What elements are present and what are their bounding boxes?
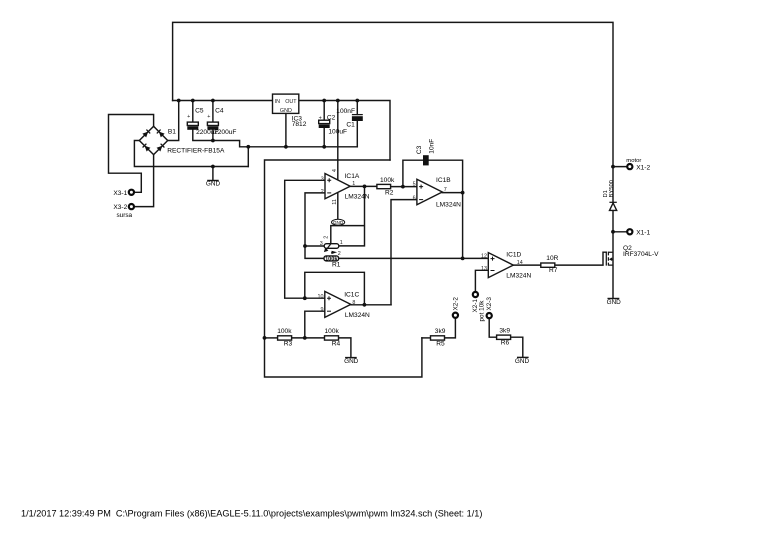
svg-text:IC1A: IC1A (345, 173, 360, 180)
junction at 402.9,186.6 (401, 185, 405, 189)
ground under R4 (344, 358, 359, 365)
wire C2 top (323, 101, 325, 121)
svg-text:7: 7 (444, 187, 447, 193)
svg-text:1: 1 (340, 240, 343, 246)
resistor R1 (324, 256, 341, 269)
svg-text:2: 2 (321, 189, 324, 195)
wire bridge bottom corner to X3-2 (134, 155, 153, 207)
svg-text:+: + (207, 114, 210, 120)
resistor R7 10R (541, 255, 559, 274)
svg-text:GND: GND (515, 358, 530, 365)
svg-text:+: + (187, 114, 190, 120)
svg-text:IN: IN (275, 99, 280, 105)
svg-text:BY500: BY500 (609, 180, 615, 197)
ground under bridge (206, 181, 221, 188)
svg-text:10nF: 10nF (428, 139, 435, 154)
wire X2-3 to R6 (489, 318, 496, 337)
junction at 613,166.6 (611, 165, 615, 169)
svg-text:1/1/2017 12:39:49 PM C:\Progr: 1/1/2017 12:39:49 PM C:\Program Files (x… (21, 509, 482, 519)
wire R6 to GND (511, 337, 523, 357)
svg-text:3k9: 3k9 (435, 328, 446, 335)
svg-text:1: 1 (352, 181, 355, 187)
svg-text:LM324N: LM324N (506, 273, 531, 280)
ground under Q2 (607, 299, 622, 307)
svg-text:R4: R4 (332, 341, 341, 348)
junction at 212.9,166.5 (211, 165, 215, 169)
svg-text:100k: 100k (325, 328, 340, 335)
wire X1-2 stub (613, 166, 627, 168)
wire GND rail riser (247, 147, 249, 167)
svg-text:R1: R1 (332, 262, 341, 269)
svg-text:3: 3 (320, 241, 323, 247)
svg-text:3k9: 3k9 (499, 327, 510, 334)
connector X1-1 (627, 229, 650, 236)
svg-text:LM324N: LM324N (436, 201, 461, 208)
connector X1-2 motor (626, 158, 650, 171)
svg-text:9: 9 (321, 307, 324, 313)
wire C5 top (192, 101, 194, 123)
junction at 192.8,100.5 (191, 99, 195, 103)
junction at 613,231.8 (611, 230, 615, 234)
junction at 264.5,337.9 (263, 336, 267, 340)
wire bridge top corner to X3-1 (109, 115, 154, 193)
svg-text:2200uF: 2200uF (214, 129, 236, 136)
svg-text:2: 2 (323, 236, 329, 239)
wire IC1B pin6 to IC1C output (391, 200, 417, 305)
svg-text:7812: 7812 (292, 121, 307, 128)
wire bridge right corner to +12V bus (168, 101, 179, 141)
capacitor C1 100nF (336, 108, 363, 129)
wire GND stub under bridge (212, 167, 214, 181)
wire IC1A feedback vertical to trimmer pin1 (339, 186, 365, 246)
junction at 357.3,100.5 (355, 99, 359, 103)
svg-text:X3-1: X3-1 (113, 190, 127, 197)
bridge rectifier B1 (139, 126, 225, 154)
op-amp IC1B (413, 177, 462, 208)
supply symbol GND oval at IC1A pin11 (332, 219, 345, 225)
svg-text:+: + (319, 116, 322, 122)
capacitor C5 2200uF (187, 108, 218, 136)
wire R3 to R4 (292, 337, 325, 339)
svg-text:X1-2: X1-2 (636, 164, 650, 171)
wire IC1C pin9 to divider (305, 311, 325, 338)
wire C3 loop from IC1B pin5 (403, 160, 463, 192)
svg-text:100uF: 100uF (328, 129, 347, 136)
svg-text:GND: GND (206, 181, 221, 188)
junction at 304.8,337.9 (303, 336, 307, 340)
svg-text:8: 8 (352, 300, 355, 306)
wire IC1A power pins 4 and 11 (337, 101, 339, 220)
wire C1 top (356, 101, 358, 115)
svg-text:10: 10 (318, 294, 324, 300)
svg-text:OUT: OUT (285, 99, 297, 105)
wire top +24V loop (173, 22, 613, 166)
wire IC1A pin2 net (305, 193, 325, 259)
junction at 248.3,146.8 (246, 145, 250, 149)
svg-text:10R: 10R (546, 255, 558, 262)
svg-text:12: 12 (481, 254, 487, 260)
connector X3-2 (113, 204, 134, 219)
junction at 212.9,140.5 (211, 139, 215, 143)
wire IC1C feedback to pin10 (305, 272, 365, 305)
junction at 178.7,100.5 (177, 99, 181, 103)
svg-text:13: 13 (481, 266, 487, 272)
svg-text:5: 5 (413, 181, 416, 187)
svg-text:pot 10k: pot 10k (478, 300, 485, 322)
svg-text:R6: R6 (501, 339, 510, 346)
wire R4 to GND (339, 338, 351, 358)
wire +12V bus left of IC3 (173, 100, 273, 102)
svg-text:4: 4 (332, 169, 338, 172)
connector X2-1 (472, 292, 485, 322)
svg-text:sursa: sursa (116, 212, 132, 219)
junction at 212.9,100.5 (211, 99, 215, 103)
diode D1 BY500 (603, 180, 617, 210)
svg-text:LM324N: LM324N (345, 194, 370, 201)
wire trimmer wiper pin2 (331, 226, 365, 244)
wire C4 bottom (212, 130, 214, 141)
svg-text:IRF3704L-V: IRF3704L-V (623, 251, 659, 258)
wire R3 left (265, 337, 278, 339)
svg-text:R7: R7 (549, 267, 558, 274)
wire motor branch through D1 and Q2 (612, 167, 614, 203)
wire R5 to X2-2 (445, 318, 456, 338)
connector X3-1 (113, 190, 134, 197)
trimmer potentiometer (pins 3-2-1) (320, 236, 343, 257)
capacitor C3 10nF (416, 139, 436, 166)
junction at 364.5,186.4 (363, 185, 367, 189)
capacitor C4 2200uF (207, 108, 236, 136)
junction at 364.4,304.8 (363, 303, 367, 307)
junction at 462.6,192.6 (461, 191, 465, 195)
resistor R6 3k9 (497, 327, 511, 346)
svg-text:X2-3: X2-3 (486, 297, 493, 311)
junction at 324.2,100.5 (322, 99, 326, 103)
op-amp IC1A (321, 169, 370, 205)
resistor R4 100k (325, 328, 341, 347)
svg-text:RECTIFIER-FB15A: RECTIFIER-FB15A (167, 147, 225, 154)
wire IC1A pin3 to IC1C pin10 (285, 180, 325, 298)
svg-text:6: 6 (413, 195, 416, 201)
wire R7 to Q2 gate (555, 252, 607, 265)
junction at 337.8,100.5 (336, 99, 340, 103)
junction at 304.8,298.2 (303, 296, 307, 300)
svg-text:GND: GND (333, 220, 344, 225)
svg-text:IC1D: IC1D (506, 251, 521, 258)
wire C2 bottom (323, 128, 325, 147)
op-amp IC1C (318, 291, 371, 319)
svg-text:LM324N: LM324N (345, 312, 370, 319)
capacitor C2 100uF (319, 115, 347, 136)
svg-text:11: 11 (332, 199, 338, 205)
svg-text:14: 14 (517, 260, 523, 266)
transistor Q2 IRF3704L-V (606, 245, 659, 266)
svg-text:X3-2: X3-2 (113, 204, 127, 211)
wire R5 left (422, 337, 431, 339)
junction at 462.6,258.4 (461, 257, 465, 261)
svg-text:R5: R5 (436, 341, 445, 348)
svg-text:X1-1: X1-1 (636, 230, 650, 237)
wire IC1D output to R7 (513, 264, 541, 266)
wire +12V bus right of IC3 (299, 101, 390, 161)
svg-text:C3: C3 (416, 145, 423, 154)
wire R1 output line to IC1D pin12 (339, 257, 489, 259)
wire C4 top (212, 101, 214, 123)
wire IC3 GND pin (285, 113, 287, 146)
resistor R5 3k9 (431, 328, 446, 347)
wire C5/C4 negative rail to GND line (193, 130, 357, 147)
svg-text:GND: GND (280, 108, 292, 114)
ground under R6 (515, 357, 530, 365)
wire C1 bottom (356, 121, 358, 147)
wire IC1C output (351, 304, 391, 306)
svg-text:B1: B1 (168, 129, 176, 136)
op-amp IC1D (481, 251, 531, 279)
wire trimmer pin3 branch (305, 245, 324, 247)
resistor R2 100k (377, 177, 395, 196)
svg-text:X2-2: X2-2 (452, 297, 459, 311)
svg-text:IC1C: IC1C (344, 291, 359, 298)
junction at 324.2,146.8 (322, 145, 326, 149)
svg-text:IC1B: IC1B (436, 177, 451, 184)
wire X1-1 stub (613, 231, 627, 233)
wire X2-1 to IC1D pin13 (475, 270, 488, 292)
junction at 285.9,146.8 (284, 145, 288, 149)
svg-text:100nF: 100nF (336, 108, 355, 115)
svg-text:C2: C2 (327, 115, 336, 122)
wire bridge left corner to GND rail (134, 141, 248, 167)
svg-text:R3: R3 (284, 341, 293, 348)
svg-text:100k: 100k (277, 328, 292, 335)
connector X2-3 (486, 297, 493, 319)
wire R2 to IC1B pin5 (391, 186, 417, 188)
svg-text:100k: 100k (380, 177, 395, 184)
wire IC1B output (442, 193, 462, 259)
svg-text:C5: C5 (195, 108, 204, 115)
svg-text:C1: C1 (346, 122, 355, 129)
resistor R3 100k (277, 328, 292, 347)
svg-text:C4: C4 (215, 108, 224, 115)
svg-text:3: 3 (321, 177, 324, 183)
wire +12V vertical feed to lower section (265, 160, 422, 377)
junction at 305,246 (303, 244, 307, 248)
svg-text:GND: GND (607, 299, 622, 306)
voltage regulator IC3 7812 (273, 94, 307, 128)
wire IC1A output to R2 (350, 185, 377, 187)
svg-text:GND: GND (344, 358, 359, 365)
svg-text:motor: motor (626, 158, 641, 164)
connector X2-2 (452, 297, 459, 318)
svg-text:R2: R2 (385, 189, 394, 196)
